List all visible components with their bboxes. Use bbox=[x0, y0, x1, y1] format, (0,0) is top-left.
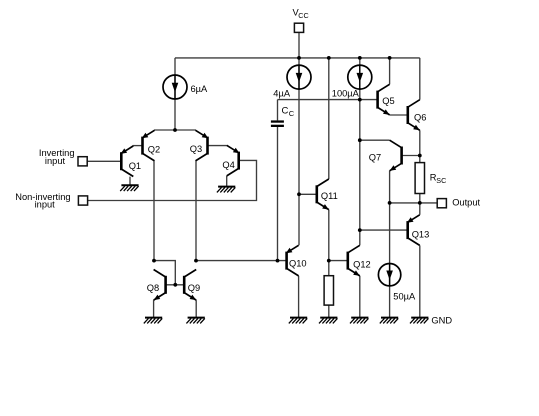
wire Q5 emitter to Q6 base bbox=[390, 114, 408, 116]
svg-text:C: C bbox=[289, 109, 295, 118]
wire Q8 emitter to ground bbox=[153, 300, 155, 318]
junction RSC bottom / Q13 emitter on output line bbox=[418, 201, 422, 205]
current source I3 100uA bbox=[348, 65, 372, 89]
wire 100uA / Q12 collector column bbox=[359, 58, 361, 245]
terminal output bbox=[437, 199, 446, 208]
current source I4 50uA bbox=[378, 264, 400, 286]
ground Q10 collector bbox=[289, 318, 307, 324]
svg-text:4µA: 4µA bbox=[273, 89, 291, 99]
junction CC bottom on Q10 base line bbox=[276, 259, 280, 263]
junction Q7 collector on Q12 collector line bbox=[358, 138, 362, 142]
transistor Q1 bbox=[121, 146, 134, 177]
junction Q7 base / Q6 emitter / RSC top bbox=[418, 154, 422, 158]
wire Q8 collector junction to mirror bases bbox=[154, 261, 175, 285]
wire Q11 emitter to R1 and Q12 base bbox=[328, 210, 330, 276]
ground Q9 emitter bbox=[186, 318, 204, 324]
resistor R1 bbox=[324, 276, 333, 305]
wire Q4 collector to ground bbox=[226, 176, 228, 187]
capacitor CC bbox=[271, 120, 284, 127]
junction Q8-Q9 base tie bbox=[173, 283, 177, 287]
svg-text:SC: SC bbox=[436, 176, 446, 185]
junction 100uA output on bias line bbox=[358, 98, 362, 102]
current source I2 4uA bbox=[287, 65, 311, 89]
svg-text:Q2: Q2 bbox=[148, 144, 160, 154]
wire Q12 emitter to ground bbox=[359, 276, 361, 318]
junction Q11 emitter / Q12 base bbox=[327, 259, 331, 263]
wire Q7 collector branch bbox=[360, 139, 390, 141]
transistor Q9 bbox=[184, 270, 196, 301]
svg-text:Q12: Q12 bbox=[353, 259, 371, 269]
svg-text:Q1: Q1 bbox=[129, 161, 141, 171]
ground Q8 emitter bbox=[144, 318, 162, 324]
svg-text:Q6: Q6 bbox=[414, 112, 426, 122]
wire Q1 collector to ground bbox=[129, 177, 131, 186]
junction 100uA on rail bbox=[358, 56, 362, 60]
ground 50uA source bbox=[380, 318, 398, 324]
wire Q7 base to RSC top node bbox=[402, 155, 420, 157]
junction 50uA / Q7 emitter on output line bbox=[388, 201, 392, 205]
wire R1 bottom to ground bbox=[328, 305, 330, 318]
wire Q11 base branch bbox=[299, 193, 317, 195]
wire Q10 collector to ground bbox=[298, 276, 300, 318]
wire Q2 collector drop bbox=[153, 161, 155, 261]
transistor Q11 bbox=[317, 179, 329, 210]
svg-text:C: C bbox=[282, 106, 289, 117]
svg-text:Q7: Q7 bbox=[369, 153, 381, 163]
wire Q1 emitter to Q2 base bbox=[133, 145, 143, 147]
wire Q9 collector junction to Q10 base bbox=[196, 260, 287, 262]
wire Q11 collector up to rail bbox=[328, 58, 330, 179]
node A: Q2/Q3 common emitters bbox=[173, 128, 177, 132]
svg-text:Q10: Q10 bbox=[289, 259, 307, 269]
transistor Q6 bbox=[408, 100, 420, 131]
transistor Q2 bbox=[142, 130, 155, 161]
junction VCC/4uA on rail bbox=[297, 56, 301, 60]
wire CC top branch bbox=[277, 100, 279, 121]
svg-text:Q8: Q8 bbox=[147, 283, 159, 293]
wire Q11 emitter node to Q12 base bbox=[329, 260, 348, 262]
transistor Q13 bbox=[407, 215, 420, 246]
junction Q11 collector on rail bbox=[327, 56, 331, 60]
wire VCC terminal drop bbox=[298, 32, 300, 58]
wire Q7 emitter / 50uA column to ground bbox=[389, 171, 391, 318]
wire bias horizontal 4uA-100uA to Q5 base bbox=[278, 99, 378, 101]
junction Q3 collector / Q9 collector bbox=[194, 259, 198, 263]
wire Q13 collector to ground bbox=[419, 245, 421, 317]
transistor Q5 bbox=[378, 84, 390, 115]
ground Q13 collector bbox=[410, 318, 428, 324]
svg-text:input: input bbox=[35, 200, 56, 210]
ground R1 bbox=[319, 318, 337, 324]
wire Q9 emitter to ground bbox=[195, 300, 197, 318]
svg-text:50µA: 50µA bbox=[393, 292, 416, 302]
wire rail right end down to Q6 collector bbox=[419, 58, 421, 100]
resistor RSC bbox=[415, 163, 424, 194]
wire Q13 base branch bbox=[360, 229, 408, 231]
svg-text:GND: GND bbox=[431, 316, 452, 326]
svg-text:Q9: Q9 bbox=[188, 283, 200, 293]
wire Q6 emitter to RSC bbox=[419, 130, 421, 162]
current source I1 6uA bbox=[163, 75, 187, 99]
svg-text:input: input bbox=[45, 156, 66, 166]
wire CC bottom branch bbox=[277, 127, 279, 261]
wire inverting input to Q1 base bbox=[87, 160, 121, 162]
wire RSC bottom to output node bbox=[419, 194, 421, 215]
ground Q12 emitter bbox=[350, 318, 368, 324]
svg-text:Output: Output bbox=[452, 198, 480, 208]
terminal non-inverting input bbox=[78, 196, 87, 205]
wire Q3 collector drop bbox=[195, 161, 197, 261]
wire output line bbox=[390, 202, 438, 204]
junction Q13 base on Q12 collector line bbox=[358, 228, 362, 232]
ground Q1 collector bbox=[120, 185, 138, 191]
wire 4uA source column down to Q10 emitter bbox=[298, 58, 300, 245]
svg-text:6µA: 6µA bbox=[191, 84, 209, 94]
svg-text:CC: CC bbox=[298, 11, 308, 20]
svg-text:Q3: Q3 bbox=[190, 144, 202, 154]
junction Q11 base on 4uA column bbox=[297, 192, 301, 196]
transistor Q12 bbox=[348, 245, 360, 276]
net VCC: top supply rail bbox=[175, 57, 420, 59]
junction Q5 collector on rail bbox=[388, 56, 392, 60]
wire rail left end down to 6uA source bbox=[174, 58, 176, 130]
junction Q2 collector / Q8 collector bbox=[152, 259, 156, 263]
wire Q8-Q9 base tie bbox=[166, 284, 185, 286]
svg-text:Q4: Q4 bbox=[222, 160, 234, 170]
terminal inverting input bbox=[78, 157, 87, 166]
transistor Q4 bbox=[227, 145, 240, 176]
wire Q3 base to Q4 emitter bbox=[208, 145, 227, 147]
wire non-inverting input run bbox=[88, 160, 257, 200]
transistor Q8 bbox=[154, 270, 166, 301]
svg-text:Q13: Q13 bbox=[412, 229, 430, 239]
svg-text:Q11: Q11 bbox=[321, 191, 338, 201]
svg-text:100µA: 100µA bbox=[332, 89, 360, 99]
svg-text:Q5: Q5 bbox=[382, 96, 394, 106]
wire Q5 collector to rail bbox=[389, 58, 391, 84]
transistor Q7 bbox=[390, 140, 402, 171]
ground Q4 collector bbox=[217, 187, 235, 193]
terminal VCC bbox=[294, 23, 303, 32]
wire Q2-Q3 emitter tie bbox=[154, 129, 196, 131]
transistor Q3 bbox=[196, 130, 209, 161]
transistor Q10 bbox=[286, 245, 299, 276]
